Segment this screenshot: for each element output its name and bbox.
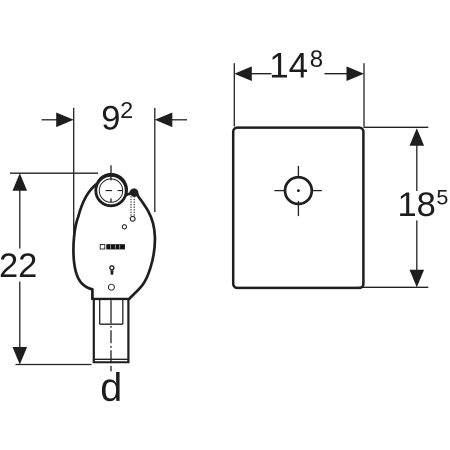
svg-text:8: 8	[310, 46, 323, 73]
svg-text:9: 9	[101, 100, 120, 138]
svg-text:18: 18	[398, 186, 436, 224]
svg-text:2: 2	[120, 97, 133, 123]
svg-text:14: 14	[269, 47, 308, 86]
svg-text:5: 5	[436, 186, 448, 210]
svg-text:22: 22	[0, 247, 37, 285]
svg-text:d: d	[100, 366, 122, 410]
